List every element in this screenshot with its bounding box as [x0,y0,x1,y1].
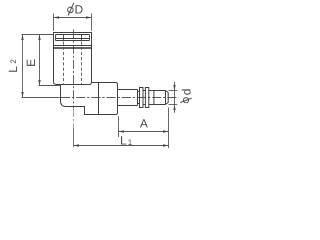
phi symbol of phiD [68,3,74,16]
body left edge with bottom corner to face [54,32,92,85]
svg-text:2: 2 [9,59,18,64]
svg-text:E: E [24,59,38,67]
dim phid arrow top [173,85,175,91]
button slot tick left [63,35,65,41]
stem neck 2 [143,91,145,105]
barb ring 2 [145,88,148,108]
horizontal centerline reference left segment [22,97,60,99]
dim L2 top reference line [22,34,54,36]
dim L1 line [74,145,169,147]
horizontal centerline of stem [61,97,179,99]
svg-text:L: L [120,134,127,148]
phi symbol of phid rotated [180,98,191,103]
stem tip cylinder [149,91,166,105]
dim phiD arrow right [86,16,92,18]
vertical centerline of body [73,30,75,109]
dim L1 arrow right [163,144,169,146]
body right edge [91,32,93,83]
dim phiD extension left [53,14,55,31]
elbow block and hex socket outline [61,83,118,115]
dim phid arrow bottom [173,105,175,111]
svg-text:A: A [140,117,148,131]
collar bottom joint [54,47,92,49]
release button band bottom [56,40,90,42]
dim E arrow bottom [38,80,40,86]
shared right extension for A and L1 [168,108,170,149]
release button band top [56,34,90,36]
dim phid line [174,82,176,113]
dim L2 line [22,35,24,98]
stem cylinder [118,90,138,106]
svg-text:L: L [6,66,20,73]
button right edge [89,35,91,41]
dim phiD extension right [91,14,93,31]
button left edge [55,35,57,41]
dim phiD line [54,17,92,19]
stem tip chamfered end face [166,91,169,105]
hidden bore line left [63,42,65,85]
stem neck 1 [138,92,140,104]
dim A arrow right [163,130,169,132]
dim A line [119,131,169,133]
button slot tick right [81,35,83,41]
hidden bore line right [81,42,83,85]
svg-text:d: d [179,89,193,96]
dim E bottom reference line [39,85,61,87]
svg-text:D: D [75,2,84,16]
dim A extension left [118,116,120,137]
centerline extension to L1 [73,108,75,128]
collar line [54,45,92,47]
dim L1 arrow left [74,144,80,146]
dim A arrow left [119,130,125,132]
dim L2 arrow bottom [21,92,23,98]
dim phid extension top [169,90,178,92]
dim E line [39,35,41,86]
hex face joint line [98,83,100,115]
dim E arrow top [38,35,40,41]
dim phiD arrow left [54,16,60,18]
stem tip step line [153,91,155,105]
dim phid extension bottom [169,104,178,106]
cap top edge [54,32,92,34]
svg-text:1: 1 [128,138,133,147]
dim L2 arrow top [21,35,23,41]
barb ring 1 [140,88,144,108]
release button band mid [56,38,90,40]
